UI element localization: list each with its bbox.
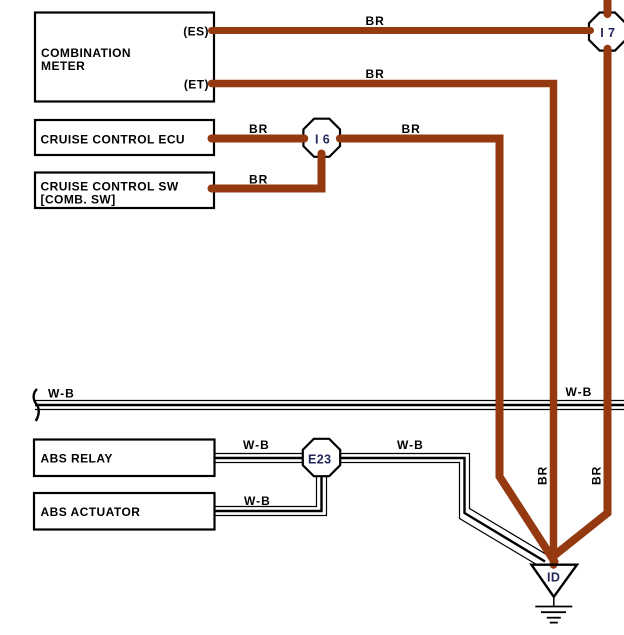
wire BR: (ES) combination meter to I7 (212, 27, 591, 34)
svg-text:W-B: W-B (48, 387, 75, 401)
svg-text:I 7: I 7 (600, 26, 615, 40)
wire BR: stub above I7 from top edge (604, 0, 612, 14)
wire BR: cruise control sw up to I6 (212, 154, 322, 189)
label W-B on E23 right wire (397, 438, 424, 452)
label BR on (ES) wire (366, 14, 385, 28)
connector E23 (303, 439, 340, 476)
svg-text:(ET): (ET) (184, 77, 209, 91)
svg-text:(ES): (ES) (183, 24, 209, 38)
svg-text:BR: BR (366, 67, 385, 81)
svg-text:ABS RELAY: ABS RELAY (41, 452, 113, 466)
svg-text:BR: BR (590, 466, 604, 485)
label BR vertical on ET ground wire (536, 466, 550, 485)
connector I7 (589, 13, 624, 51)
svg-text:COMBINATION: COMBINATION (41, 46, 131, 60)
wire BR: I6 right to ground (340, 139, 555, 562)
svg-text:W-B: W-B (397, 438, 424, 452)
box ABS RELAY (34, 440, 215, 477)
wire W-B bundle: ABS RELAY to E23 and on to ground (3 lines) (215, 454, 552, 565)
label BR on (ET) wire (366, 67, 385, 81)
wire W-B ground bus (double run, 3 lines) (35, 401, 624, 410)
wire BR: (ET) combination meter down to ground (212, 84, 554, 566)
svg-text:W-B: W-B (566, 385, 593, 399)
svg-text:BR: BR (536, 466, 550, 485)
svg-text:ABS ACTUATOR: ABS ACTUATOR (41, 505, 141, 519)
wire BR: I7 down to ground (553, 49, 608, 557)
svg-text:ID: ID (547, 571, 560, 585)
svg-text:BR: BR (366, 14, 385, 28)
ground ID triangle body (531, 565, 577, 597)
label W-B on abs relay wire (243, 438, 270, 452)
label W-B on bus right (566, 385, 593, 399)
continuation brace at left end of bus (34, 389, 39, 421)
box CRUISE CONTROL ECU (35, 120, 214, 155)
svg-text:W-B: W-B (244, 494, 271, 508)
label W-B on bus left (48, 387, 75, 401)
svg-text:BR: BR (249, 173, 268, 187)
label W-B on abs actuator wire (244, 494, 271, 508)
svg-text:W-B: W-B (243, 438, 270, 452)
svg-text:BR: BR (402, 122, 421, 136)
svg-text:I 6: I 6 (315, 133, 330, 147)
connector I6 (303, 119, 340, 157)
box CRUISE CONTROL SW (35, 173, 214, 209)
box ABS ACTUATOR (34, 493, 215, 530)
svg-text:CRUISE CONTROL SW: CRUISE CONTROL SW (41, 179, 179, 193)
label BR vertical on I7 ground wire (590, 466, 604, 485)
wire W-B bundle: ABS ACTUATOR up to E23 (3 lines) (215, 468, 327, 516)
label BR on cruise ecu wire right (402, 122, 421, 136)
svg-text:METER: METER (41, 59, 85, 73)
label BR on cruise ecu wire left (249, 122, 268, 136)
svg-text:[COMB. SW]: [COMB. SW] (41, 192, 116, 206)
svg-text:CRUISE CONTROL ECU: CRUISE CONTROL ECU (41, 133, 186, 147)
svg-text:E23: E23 (308, 453, 331, 467)
wire BR: cruise control ecu to I6 (212, 135, 305, 143)
ground symbol bars (535, 597, 572, 623)
label BR on cruise sw wire (249, 173, 268, 187)
box COMBINATION METER (35, 13, 214, 102)
svg-text:BR: BR (249, 122, 268, 136)
ground ID triangle border and label (531, 565, 577, 597)
